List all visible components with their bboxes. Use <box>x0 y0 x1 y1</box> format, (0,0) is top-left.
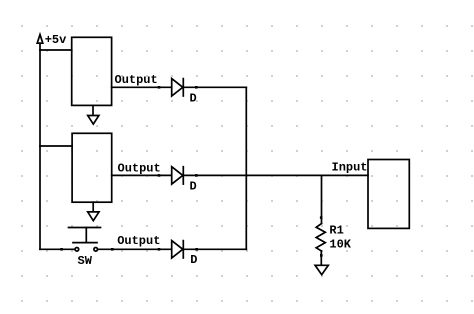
svg-text:Output: Output <box>117 234 160 248</box>
diode D row3 <box>172 241 184 258</box>
block U1 rectangle <box>72 37 112 105</box>
wire bus to block2 <box>40 145 72 147</box>
block U2 rectangle <box>72 133 112 202</box>
diode D row2 <box>172 167 184 184</box>
ground below block U2 <box>88 202 99 221</box>
wire bus vertical right <box>245 87 247 249</box>
pin tick D1 cathode <box>195 86 198 89</box>
pin tick R1 bottom <box>320 254 323 257</box>
pin tick R1 top <box>320 216 323 219</box>
wire R1 to ground <box>320 251 322 265</box>
svg-text:+5v: +5v <box>45 33 67 47</box>
svg-text:Input: Input <box>332 161 368 175</box>
power +5v symbol <box>37 35 43 51</box>
svg-text:Output: Output <box>118 161 161 175</box>
svg-text:D: D <box>190 179 197 193</box>
svg-text:Output: Output <box>115 73 158 87</box>
switch SW pushbutton <box>69 228 101 252</box>
svg-text:SW: SW <box>78 254 93 268</box>
pin tick D1 anode <box>158 86 161 89</box>
svg-text:R1: R1 <box>329 223 343 237</box>
svg-text:10K: 10K <box>329 238 351 252</box>
pin tick D3 anode <box>158 248 161 251</box>
pin tick SW left <box>60 248 63 251</box>
pin tick D2 cathode <box>195 174 198 177</box>
block U3 input rectangle <box>368 160 409 229</box>
diode D row1 <box>172 79 184 96</box>
wire block2 output to input block <box>112 174 368 176</box>
svg-text:D: D <box>190 253 197 267</box>
ground below R1 <box>315 265 328 274</box>
wire block1 output to bus <box>112 86 247 88</box>
svg-text:D: D <box>190 91 197 105</box>
wire +5v to block1 <box>40 49 72 51</box>
wire bus to switch <box>40 248 75 250</box>
wire switch to bus <box>98 248 247 250</box>
pin tick D2 anode <box>158 174 161 177</box>
ground below block U1 <box>88 105 99 124</box>
wire left bus vertical <box>39 50 41 249</box>
wire to resistor R1 <box>321 175 323 223</box>
resistor R1 zigzag <box>316 224 325 252</box>
pin tick SW right <box>111 248 114 251</box>
pin tick D3 cathode <box>195 248 198 251</box>
